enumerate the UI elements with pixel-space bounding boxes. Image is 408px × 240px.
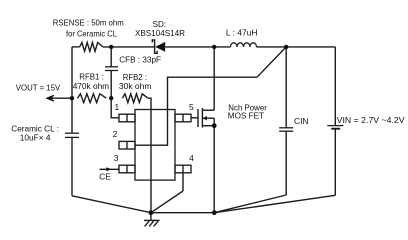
svg-text:RSENSE : 50m ohm: RSENSE : 50m ohm [53, 17, 124, 27]
svg-text:10uF× 4: 10uF× 4 [20, 133, 51, 143]
svg-text:470k ohm: 470k ohm [73, 81, 109, 91]
svg-text:CIN: CIN [294, 116, 309, 126]
svg-text:L : 47uH: L : 47uH [226, 28, 258, 38]
svg-text:5: 5 [189, 102, 194, 112]
svg-text:XBS104S14R: XBS104S14R [135, 28, 185, 38]
svg-text:2: 2 [113, 129, 118, 139]
svg-text:1: 1 [115, 102, 120, 112]
svg-text:3: 3 [114, 153, 119, 163]
svg-text:4: 4 [189, 153, 194, 163]
svg-text:for Ceramic CL: for Ceramic CL [66, 28, 117, 38]
svg-text:RFB1 :: RFB1 : [79, 72, 104, 82]
svg-text:VOUT = 15V: VOUT = 15V [16, 83, 61, 93]
svg-text:VIN = 2.7V ~4.2V: VIN = 2.7V ~4.2V [337, 115, 405, 125]
svg-text:30k ohm: 30k ohm [119, 81, 151, 91]
svg-text:MOS FET: MOS FET [228, 111, 264, 121]
svg-text:CFB : 33pF: CFB : 33pF [119, 54, 161, 64]
svg-text:CE: CE [99, 172, 111, 182]
